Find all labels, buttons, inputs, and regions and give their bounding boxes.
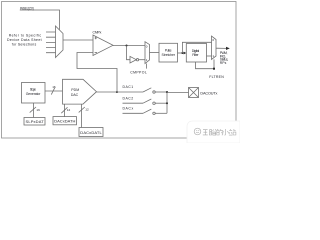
wire junction down to inverter (127, 46, 131, 60)
watermark box (187, 121, 240, 143)
wire DACx row (123, 112, 144, 114)
svg-text:Filter: Filter (192, 53, 199, 57)
svg-text:12: 12 (67, 108, 71, 112)
svg-text:16: 16 (36, 108, 40, 112)
char cong (209, 129, 216, 135)
node bypass junction (181, 52, 183, 54)
wire FLTREN select (196, 59, 215, 68)
switch S1 blade (143, 88, 155, 93)
svg-text:DAC: DAC (71, 93, 79, 97)
svg-text:for Selections: for Selections (12, 42, 37, 46)
svg-text:DACxDATL: DACxDATL (80, 130, 102, 135)
wire CMPPOL select stub (146, 64, 148, 69)
wire PDM DAC to DACxDATL (81, 104, 83, 127)
char zhan (229, 129, 236, 135)
mux M3 filter select (212, 36, 217, 59)
svg-text:Device Data Sheet: Device Data Sheet (7, 38, 42, 42)
node A feedback junction (116, 91, 118, 93)
mux M2 polarity select (145, 42, 150, 64)
svg-text:CMPx: CMPx (93, 31, 102, 35)
block DACxDATH register (53, 117, 77, 125)
char de (217, 129, 223, 135)
wire S1 to rail (155, 91, 167, 93)
svg-text:Stretcher: Stretcher (162, 53, 176, 57)
watermark logo (194, 128, 201, 135)
wire mux input stubs (46, 32, 56, 53)
svg-text:SLPxDAT: SLPxDAT (26, 119, 45, 124)
arrowhead into digital filter (184, 52, 187, 55)
wire mux output to comparator + input (63, 39, 93, 41)
bus slash 12 left (61, 107, 67, 113)
wire digital filter output to mux M3 (207, 55, 212, 57)
wire DAC1 row (117, 91, 143, 93)
svg-text:CMPPOL: CMPPOL (130, 71, 147, 75)
inverter U2 (130, 56, 139, 63)
wire DAC output to node A (97, 91, 118, 93)
wire filter bypass (182, 42, 211, 53)
node FLTREN corner (213, 68, 215, 70)
wire feedback to comparator - input (77, 53, 117, 93)
svg-text:DACxDATH: DACxDATH (54, 119, 75, 124)
comparator U1 CMPx (93, 35, 113, 56)
switch S2 blade (143, 99, 155, 104)
svg-text:PDM: PDM (71, 88, 79, 92)
bus slash 16 horizontal (51, 88, 54, 95)
node rail DAC1 (166, 91, 168, 93)
net INSEL[2:0] select wire (20, 10, 60, 30)
svg-text:INSEL[2:0]: INSEL[2:0] (20, 6, 34, 10)
pin - (95, 51, 97, 53)
block Slope Generator (22, 83, 46, 104)
svg-text:DACx: DACx (123, 107, 134, 111)
watermark text (vector strokes, CJK-safe) (203, 129, 236, 135)
block Digital Filter (186, 44, 206, 63)
border frame (decorative) (2, 2, 237, 139)
block SLPxDAT register (24, 118, 45, 126)
wire slope generator to SLPxDAT (33, 103, 35, 118)
wire output rail (166, 92, 168, 113)
wire pulse stretcher output (178, 52, 186, 54)
wire inverter to mux input 1 (139, 59, 145, 61)
node comparator output junction (126, 45, 128, 47)
wire output arrow (216, 47, 227, 49)
svg-text:12: 12 (85, 108, 89, 112)
char wang (203, 130, 208, 135)
svg-text:DACOUTx: DACOUTx (200, 92, 217, 96)
svg-text:DAC2: DAC2 (123, 96, 134, 100)
wire DAC2 row (123, 102, 144, 104)
bus slash 16 vertical (30, 107, 36, 113)
wire rail to pad (167, 92, 189, 94)
svg-text:DAC1: DAC1 (123, 85, 134, 89)
svg-text:16: 16 (52, 85, 56, 89)
pad DACOUTx (189, 88, 199, 98)
char xiao (222, 129, 228, 135)
svg-text:RPs: RPs (220, 61, 227, 65)
svg-text:Refer to Specific: Refer to Specific (9, 33, 42, 37)
arrowhead output (226, 47, 230, 50)
pin + (95, 37, 97, 39)
svg-text:Generator: Generator (26, 92, 42, 96)
svg-text:FLTREN: FLTREN (209, 75, 224, 79)
wire slope generator to PDM DAC (45, 90, 63, 92)
node rail DAC2 (166, 102, 168, 104)
svg-text:Slope: Slope (30, 87, 36, 91)
wire S2 to rail (155, 102, 167, 104)
input mux M1 (56, 26, 64, 58)
switch S3 blade (143, 109, 155, 114)
block DACxDATL register (79, 128, 103, 137)
wire PDM DAC to DACxDATH (64, 104, 66, 117)
wire comparator output (113, 45, 145, 47)
bus slash 12 right (79, 107, 85, 112)
block Pulse Stretcher (159, 43, 178, 62)
wire S3 to rail (155, 112, 167, 114)
dac D1 PDM DAC (63, 79, 97, 104)
wire mux M2 output to pulse stretcher (150, 52, 160, 54)
